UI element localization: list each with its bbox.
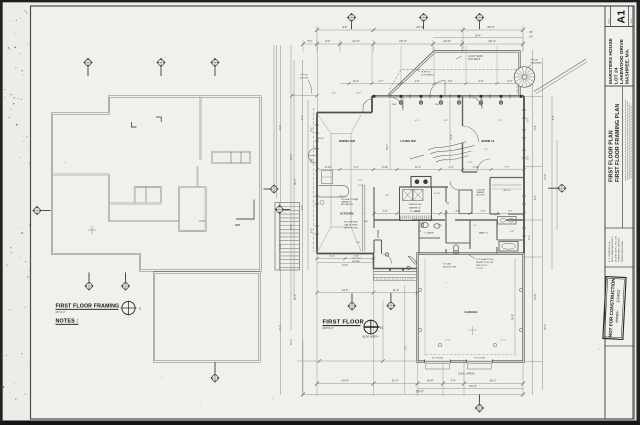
floor plan top-left jog <box>317 96 372 113</box>
svg-text:7'-8": 7'-8" <box>450 379 455 383</box>
toilet bath1 <box>453 245 458 251</box>
framing plan outline <box>52 97 261 271</box>
svg-text:P. SLAB: P. SLAB <box>443 263 452 266</box>
svg-text:4'-0": 4'-0" <box>415 120 419 122</box>
porch roof note <box>416 70 435 77</box>
section marker diamond 7 <box>32 206 50 215</box>
handwritten notes <box>428 142 475 162</box>
kitchen counter <box>358 185 365 252</box>
svg-text:A1: A1 <box>616 10 628 24</box>
title block project address <box>605 38 634 86</box>
svg-text:24'-8": 24'-8" <box>533 293 537 300</box>
toilet cl bath <box>422 223 429 228</box>
svg-text:DINING RM: DINING RM <box>339 139 355 143</box>
svg-text:MASHPEE, MA.: MASHPEE, MA. <box>625 48 630 84</box>
svg-text:44'-8": 44'-8" <box>416 25 424 29</box>
secondary top dim <box>433 33 523 37</box>
svg-text:PER FOOT /: PER FOOT / <box>476 265 489 267</box>
svg-text:TW2642: TW2642 <box>316 138 324 140</box>
svg-text:7'-1": 7'-1" <box>481 210 486 213</box>
floor plan garage walls <box>418 254 524 362</box>
bdrm door swing <box>463 126 479 142</box>
svg-text:N: N <box>139 307 141 311</box>
svg-text:5'-0": 5'-0" <box>508 80 513 83</box>
label first floor <box>323 320 365 331</box>
top dimension line segments <box>301 39 525 52</box>
svg-text:4'-4": 4'-4" <box>449 166 454 169</box>
svg-text:7'-8": 7'-8" <box>354 255 359 258</box>
framing beam mark <box>88 226 96 234</box>
svg-text:3'-6": 3'-6" <box>278 125 282 130</box>
right rotated dim texts <box>527 115 555 330</box>
windows left wall <box>315 125 319 234</box>
framing interior wall bedroom <box>200 97 202 161</box>
svg-text:LIN: LIN <box>446 203 450 205</box>
svg-text:FIRST FLOOR FRAMING PLAN: FIRST FLOOR FRAMING PLAN <box>615 104 621 182</box>
entry interior jamb <box>374 240 382 254</box>
title block drawing title <box>609 86 623 228</box>
deck diagonal line <box>534 59 586 92</box>
svg-text:11'-4": 11'-4" <box>415 210 421 213</box>
svg-text:3'-0": 3'-0" <box>358 180 362 182</box>
compass framing <box>121 301 142 316</box>
svg-text:LAKEWOOD DRIVE: LAKEWOOD DRIVE <box>619 39 624 84</box>
section marker diamond 1 <box>347 13 356 29</box>
svg-text:TYP WD: TYP WD <box>300 75 308 77</box>
svg-text:PTD AL: PTD AL <box>531 59 539 62</box>
svg-text:4'-1": 4'-1" <box>527 235 531 240</box>
note arrow <box>410 155 424 159</box>
svg-text:3/4"=1'-0": 3/4"=1'-0" <box>56 312 66 314</box>
top wall extension lines <box>372 46 497 82</box>
svg-text:9'x7' OH DR: 9'x7' OH DR <box>432 358 444 360</box>
garage center mark <box>445 326 506 340</box>
svg-text:16'-2": 16'-2" <box>490 379 497 383</box>
porch dim row <box>340 80 525 85</box>
svg-text:4'-8": 4'-8" <box>448 80 453 83</box>
svg-text:6'-4": 6'-4" <box>330 255 335 258</box>
svg-text:2'-4": 2'-4" <box>418 231 422 233</box>
svg-text:4'-0": 4'-0" <box>300 115 304 120</box>
bdrm vertical dim <box>449 100 451 163</box>
svg-text:2'-0": 2'-0" <box>438 225 442 227</box>
stair laundry block <box>400 187 449 221</box>
garage slab note <box>476 258 494 270</box>
svg-text:DW: DW <box>356 242 359 244</box>
top wall posts <box>373 95 523 104</box>
svg-text:6'-0": 6'-0" <box>456 210 461 213</box>
framing closet row top right <box>212 152 250 164</box>
svg-text:FORESTDALE, MA 02644: FORESTDALE, MA 02644 <box>618 237 621 262</box>
svg-text:14'-0": 14'-0" <box>341 379 349 383</box>
svg-text:E. T. JOHNSON, A.I.A.: E. T. JOHNSON, A.I.A. <box>608 241 611 262</box>
bottom dim lines <box>301 251 525 397</box>
lin closet <box>459 190 472 214</box>
wall kitchen/foyer divider <box>373 187 375 254</box>
section marker diamond 3 <box>475 13 484 29</box>
svg-text:16'-4": 16'-4" <box>475 33 482 37</box>
svg-text:STACKED W/D: STACKED W/D <box>409 203 423 206</box>
dining tray ceiling outline <box>318 115 361 251</box>
interior dim row hall <box>372 210 525 215</box>
section marker diamond 13 <box>210 362 219 382</box>
svg-text:NOTES :: NOTES : <box>56 319 79 325</box>
label first floor framing <box>56 304 120 314</box>
not for construction stamp <box>603 267 634 346</box>
svg-text:10/4/02: 10/4/02 <box>615 289 621 303</box>
garage door labels <box>432 358 486 360</box>
svg-text:456 RTE 130 P.O. BOX 230: 456 RTE 130 P.O. BOX 230 <box>615 235 617 262</box>
svg-text:4'-8": 4'-8" <box>415 80 420 83</box>
porch door arc up <box>430 81 445 96</box>
spiral stair <box>514 67 535 88</box>
door swings top wall <box>470 97 482 109</box>
misc tiny labels <box>316 104 514 244</box>
bath partition walls <box>419 220 497 254</box>
left dimension extension lines <box>274 45 314 395</box>
framing interior wall vertical <box>108 175 110 223</box>
svg-text:5'-0": 5'-0" <box>528 155 530 160</box>
svg-text:14'-0": 14'-0" <box>342 264 348 267</box>
svg-text:CONC. APRON: CONC. APRON <box>458 373 475 376</box>
svg-text:6'-8": 6'-8" <box>444 120 448 122</box>
svg-text:8'-4": 8'-4" <box>533 195 537 200</box>
svg-text:9'-6": 9'-6" <box>300 205 304 210</box>
outline kitchen note <box>341 199 359 206</box>
title block disclaimer fine print <box>626 99 631 181</box>
svg-text:WWM PITCH 1/8": WWM PITCH 1/8" <box>476 262 494 264</box>
svg-text:23'-4": 23'-4" <box>386 144 389 150</box>
svg-text:HANDRAIL: HANDRAIL <box>531 62 543 65</box>
garage right inner dim <box>425 258 515 356</box>
svg-text:7'-6": 7'-6" <box>383 210 388 213</box>
svg-text:36'-0": 36'-0" <box>487 25 495 29</box>
windows right wall <box>522 110 526 236</box>
svg-text:4'-7": 4'-7" <box>379 80 384 83</box>
scan edge band left <box>0 2 3 422</box>
svg-text:9'4": 9'4" <box>343 25 348 29</box>
section marker diamond 16 <box>475 394 484 412</box>
hall door arc <box>450 181 459 190</box>
svg-text:30'-4": 30'-4" <box>293 178 297 185</box>
section marker diamond 4 <box>83 58 92 76</box>
svg-text:10'-8": 10'-8" <box>443 39 451 43</box>
svg-text:2'-4": 2'-4" <box>354 166 359 169</box>
entry post circles <box>385 253 388 256</box>
compass first floor <box>363 320 384 339</box>
left rotated dim texts <box>278 115 304 345</box>
svg-text:12'-0": 12'-0" <box>352 39 360 43</box>
svg-text:66'-0": 66'-0" <box>416 390 424 394</box>
svg-text:5'4": 5'4" <box>308 39 313 43</box>
svg-text:LIVING RM: LIVING RM <box>400 139 416 143</box>
title block firm info <box>605 228 634 262</box>
svg-text:5'-4": 5'-4" <box>278 325 282 330</box>
garage interior dashed line <box>426 354 514 356</box>
svg-text:35'-0": 35'-0" <box>543 323 547 330</box>
svg-text:24'-0": 24'-0" <box>289 153 293 160</box>
svg-text:W.I. CL: W.I. CL <box>503 190 511 192</box>
top dimension line <box>315 25 533 51</box>
svg-text:14'-0": 14'-0" <box>342 288 349 292</box>
title block outer strip <box>604 6 606 419</box>
right wall window dims <box>528 117 530 160</box>
dining door arc at jog <box>363 97 403 112</box>
svg-text:BATH #1: BATH #1 <box>479 232 488 235</box>
garage door openings <box>425 360 493 370</box>
svg-text:6'-8": 6'-8" <box>479 80 484 83</box>
svg-text:21'-6": 21'-6" <box>543 173 547 180</box>
svg-text:5'-10": 5'-10" <box>382 166 388 169</box>
svg-text:9'6": 9'6" <box>529 32 533 34</box>
left wall head dim <box>290 44 319 113</box>
svg-text:GRN TOP SSTL: GRN TOP SSTL <box>344 228 359 230</box>
section marker diamond 2 <box>419 13 428 29</box>
label notes <box>56 319 79 325</box>
svg-text:6'-0": 6'-0" <box>528 117 530 122</box>
porch labels <box>456 55 483 61</box>
floor plan left wall <box>316 113 318 254</box>
svg-text:54'-0": 54'-0" <box>469 384 477 388</box>
svg-text:9'-0": 9'-0" <box>484 149 488 151</box>
interior dim row living <box>315 166 525 171</box>
framing plan garage box <box>154 273 260 362</box>
deck stair <box>275 203 300 271</box>
section marker diamond 9 <box>275 205 290 214</box>
framing wall stair west <box>197 166 199 187</box>
kitchen bottom dim <box>315 255 375 267</box>
sink cl bath <box>434 224 440 229</box>
svg-text:5'-4": 5'-4" <box>332 93 337 95</box>
svg-text:9'-6": 9'-6" <box>533 125 537 130</box>
kitchen sink circle <box>320 201 324 205</box>
svg-text:sheet: sheet <box>607 18 610 24</box>
kitchen notes <box>344 222 359 230</box>
svg-text:11'-2": 11'-2" <box>293 294 297 300</box>
svg-text:2'-6": 2'-6" <box>498 120 502 122</box>
svg-text:6'-0": 6'-0" <box>311 127 314 132</box>
framing closet boxes <box>135 187 161 203</box>
svg-text:A-201: A-201 <box>630 17 633 23</box>
paper margin tint <box>3 2 31 420</box>
svg-text:BLDG NORTH: BLDG NORTH <box>363 336 379 339</box>
svg-text:LOT 24: LOT 24 <box>614 67 619 84</box>
scan edge band top <box>0 0 640 2</box>
svg-text:SCR PANELS: SCR PANELS <box>421 74 435 77</box>
section marker diamond 5 <box>156 58 165 76</box>
section marker diamond 11 <box>84 272 93 290</box>
tub bath1 <box>499 242 518 252</box>
wall closet top <box>490 178 524 215</box>
svg-text:7'-10": 7'-10" <box>278 243 282 250</box>
entry door leaf <box>408 256 417 267</box>
wall hall long <box>374 219 524 221</box>
section marker diamond 15 <box>386 293 395 310</box>
svg-text:13'-2": 13'-2" <box>450 134 453 140</box>
wall bdrm south <box>463 171 478 173</box>
porch outline <box>388 51 520 96</box>
svg-text:6'-0": 6'-0" <box>311 228 314 233</box>
stair block labels <box>409 193 441 213</box>
svg-text:26'-0": 26'-0" <box>399 39 407 43</box>
svg-text:4'-11": 4'-11" <box>468 162 473 164</box>
svg-text:3/16"=1'-0": 3/16"=1'-0" <box>323 328 334 330</box>
svg-text:9'4": 9'4" <box>326 39 331 43</box>
dining head dims <box>332 93 362 95</box>
svg-text:POST: POST <box>339 196 345 198</box>
svg-text:BLUESTONE: BLUESTONE <box>443 267 457 269</box>
svg-text:11'-4": 11'-4" <box>415 166 421 169</box>
svg-text:FIRST FLOOR PLAN: FIRST FLOOR PLAN <box>609 130 615 182</box>
svg-text:KITCHEN: KITCHEN <box>340 212 353 216</box>
dining wall window dims <box>311 127 314 233</box>
framing stair shaft <box>179 187 205 231</box>
svg-text:3'-10": 3'-10" <box>473 166 479 169</box>
svg-text:PCH DECK: PCH DECK <box>468 58 481 61</box>
svg-text:18'-0": 18'-0" <box>289 338 293 345</box>
svg-text:TO DR: TO DR <box>476 268 483 270</box>
svg-text:11'-0": 11'-0" <box>392 379 399 383</box>
svg-text:SCRN W/: SCRN W/ <box>421 72 431 74</box>
svg-text:16'-4": 16'-4" <box>488 39 496 43</box>
section marker diamond 8 <box>263 184 278 193</box>
svg-text:MARSTERS HOUSE: MARSTERS HOUSE <box>608 38 613 84</box>
svg-text:FL JST: FL JST <box>434 193 441 195</box>
garage small circles <box>418 288 522 346</box>
svg-text:2x6 STUD: 2x6 STUD <box>299 78 309 80</box>
svg-text:APPLIANCES: APPLIANCES <box>341 203 354 206</box>
title block sheet number box A1 <box>605 6 634 27</box>
svg-text:FIRST FLOOR: FIRST FLOOR <box>323 320 365 326</box>
floor plan kitchen south wall <box>317 253 374 255</box>
living vertical dim <box>389 100 391 170</box>
bdrm south door swing <box>477 159 490 172</box>
svg-text:7'-7": 7'-7" <box>508 210 513 213</box>
svg-text:PHONE 508-555-0808: PHONE 508-555-0808 <box>622 240 624 262</box>
svg-text:11'-0": 11'-0" <box>393 288 399 292</box>
svg-text:9'-6": 9'-6" <box>406 345 408 350</box>
spiral stair label <box>528 59 543 69</box>
sink counter bath1 <box>498 217 517 225</box>
svg-text:11'-10": 11'-10" <box>324 166 331 169</box>
framing interior wall south hall <box>109 220 179 222</box>
floor plan entry walls <box>374 254 418 269</box>
svg-text:REGISTERED ARCHITECT: REGISTERED ARCHITECT <box>611 235 614 262</box>
svg-text:2'6": 2'6" <box>529 37 533 39</box>
svg-text:PLD WHT BRD: PLD WHT BRD <box>344 222 358 224</box>
svg-text:BDRM #1: BDRM #1 <box>482 139 495 143</box>
svg-text:CAB 36" HIGH: CAB 36" HIGH <box>344 224 358 227</box>
range box <box>411 177 431 188</box>
framing interior wall hall <box>109 203 161 205</box>
svg-text:GARAGE: GARAGE <box>465 310 478 314</box>
svg-text:6'-8": 6'-8" <box>510 231 514 233</box>
framing corner bracket marks <box>132 117 255 225</box>
section marker diamond 10 <box>548 184 566 193</box>
front yard level line <box>297 285 418 394</box>
svg-text:16'-4": 16'-4" <box>353 80 359 83</box>
svg-text:4" P SLAB W/ 6x6: 4" P SLAB W/ 6x6 <box>476 258 494 261</box>
scan edge band bottom <box>0 421 640 425</box>
french door left wall <box>309 148 317 163</box>
svg-text:CL BATH: CL BATH <box>425 232 434 235</box>
svg-text:16'-8": 16'-8" <box>427 379 434 383</box>
entry door swings <box>382 254 392 264</box>
wall living/bdrm divider <box>462 96 464 172</box>
right dimension extension lines <box>524 50 557 395</box>
section marker diamond 14 <box>347 293 356 310</box>
framing interior wall west <box>52 174 109 176</box>
svg-text:6'-2": 6'-2" <box>551 115 555 120</box>
section marker diamond 6 <box>210 58 219 76</box>
svg-text:ISSUED :: ISSUED : <box>615 310 620 323</box>
entry stoop steps <box>373 269 417 281</box>
svg-text:8'-0": 8'-0" <box>357 93 362 95</box>
svg-text:9'x7' OH DR: 9'x7' OH DR <box>474 358 486 360</box>
closet shelf lines <box>492 184 522 186</box>
appliance note kitchen island <box>352 257 362 263</box>
windows top wall ticks <box>390 94 510 98</box>
cabinet alcove note <box>477 190 486 197</box>
svg-text:7'-7": 7'-7" <box>505 166 510 169</box>
svg-text:FIRST FLOOR FRAMING: FIRST FLOOR FRAMING <box>56 304 120 310</box>
svg-text:5'-0": 5'-0" <box>473 225 477 227</box>
kitchen small boxes <box>322 171 333 184</box>
scan edge band right <box>637 2 640 422</box>
front yard dim row <box>315 288 419 294</box>
svg-text:ALCOVE: ALCOVE <box>477 194 485 197</box>
svg-text:16'-0": 16'-0" <box>289 223 293 230</box>
mud room note <box>443 263 457 269</box>
floor plan main top wall <box>372 96 524 97</box>
kitchen peninsula capsule <box>319 186 349 198</box>
floor plan right wall <box>523 96 525 254</box>
svg-text:FOYER: FOYER <box>377 229 380 238</box>
svg-text:24'-0": 24'-0" <box>512 314 515 320</box>
section marker diamond 12 <box>121 272 130 290</box>
